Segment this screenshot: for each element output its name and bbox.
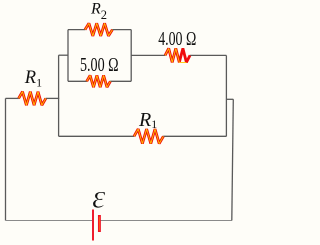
- wire middle R1 lead left: [59, 135, 135, 137]
- svg-text:4.00 Ω: 4.00 Ω: [158, 29, 196, 50]
- wire outer right vertical: [232, 99, 234, 220]
- battery long plate: [92, 210, 94, 241]
- battery short plate: [98, 215, 101, 232]
- wire left R1 lead left: [6, 97, 20, 99]
- resistor 4.00 ohm: [165, 48, 190, 62]
- wire box bottom right lead: [110, 80, 131, 82]
- battery EMF source: [93, 210, 99, 241]
- wire box bottom left lead: [68, 80, 87, 82]
- svg-text:5.00 Ω: 5.00 Ω: [80, 55, 119, 76]
- resistor R1 middle: [134, 129, 163, 144]
- wire middle R1 lead right: [163, 135, 226, 137]
- wire outer left vertical: [5, 98, 7, 220]
- wire bottom left segment: [6, 220, 93, 222]
- wire 4 ohm lead right: [190, 54, 227, 56]
- wire box top right lead: [112, 29, 131, 31]
- wire box top left lead: [68, 29, 85, 31]
- resistor R1 left: [19, 92, 46, 106]
- wire right jog: [226, 98, 233, 100]
- resistor R2: [85, 23, 112, 36]
- resistor 5.00 ohm: [87, 75, 111, 87]
- wire parallel box left edge: [67, 30, 69, 82]
- wire bottom right segment: [100, 220, 232, 222]
- wire inner left vertical: [58, 55, 60, 136]
- wire parallel box right edge: [130, 30, 132, 82]
- wire tap to box: [59, 54, 68, 56]
- wire inner right vertical: [225, 55, 227, 136]
- svg-text:ε: ε: [92, 179, 106, 216]
- wire 4 ohm lead left: [131, 54, 165, 56]
- wire left R1 lead right: [46, 97, 60, 99]
